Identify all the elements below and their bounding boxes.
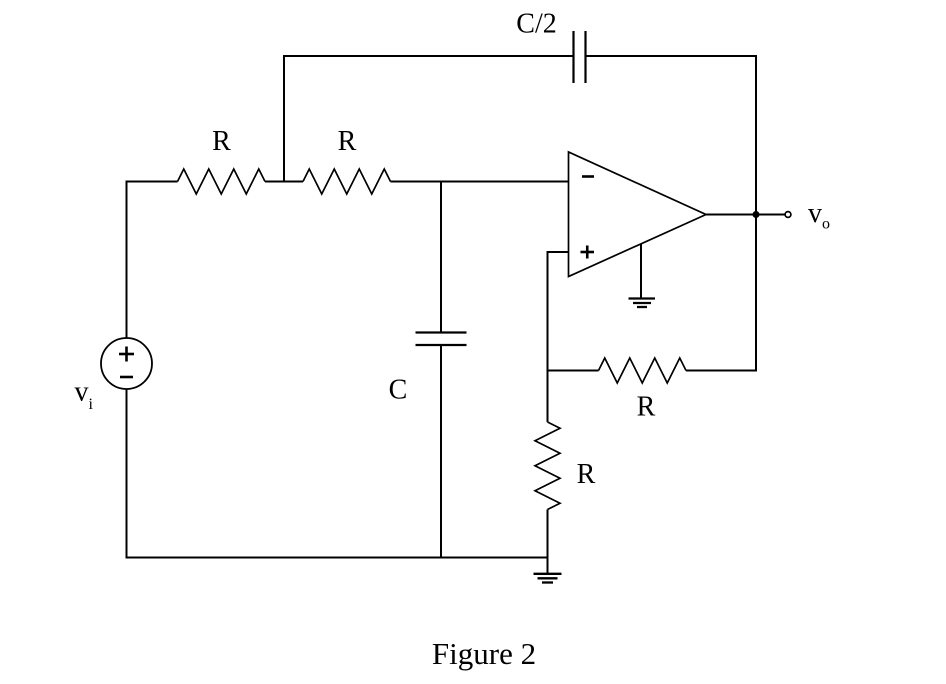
wire: input lead from source up and right to R1 <box>127 182 178 339</box>
wire: R4 down to bottom rail ground node <box>547 510 549 558</box>
svg-text:R: R <box>637 392 656 423</box>
wire: R3 to output vertical <box>686 370 757 372</box>
resistor R2 <box>303 169 391 194</box>
svg-text:R: R <box>212 126 231 157</box>
voltage source vi <box>101 338 152 389</box>
wire: node B down to capacitor C <box>440 182 442 333</box>
svg-text:R: R <box>577 459 596 490</box>
capacitor C/2 <box>574 31 586 83</box>
ground: main circuit ground <box>534 558 562 583</box>
terminal: vo open circle <box>785 212 791 218</box>
wire: feedback node to R3 <box>548 370 599 372</box>
op-amp U1 <box>569 152 707 277</box>
wire: op-amp output <box>706 214 785 216</box>
wire: right vertical from feedback top to feedback resistor <box>755 55 757 372</box>
resistor R4 <box>535 422 560 510</box>
svg-text:Figure 2: Figure 2 <box>432 636 536 671</box>
capacitor C <box>416 333 467 346</box>
ground: op-amp reference ground <box>629 244 656 307</box>
wire: from R2 through node B to op-amp inverting input <box>391 181 569 183</box>
resistor R1 <box>178 169 266 194</box>
wire: feedback top right segment <box>586 55 758 57</box>
wire: feedback node down to R4 <box>547 371 549 423</box>
node: output junction dot <box>753 211 760 218</box>
op-amp inverting input marker <box>582 175 594 178</box>
wire: non-inverting input left and down to feedback node <box>548 252 569 372</box>
svg-text:C: C <box>389 375 408 406</box>
svg-text:R: R <box>338 126 357 157</box>
wire: source bottom down and along bottom to ground node <box>127 389 548 558</box>
wire: between R1 and R2 through node A <box>265 181 303 183</box>
wire: node A vertical up to feedback branch <box>283 55 285 182</box>
wire: capacitor C bottom to bottom rail <box>440 345 442 558</box>
wire: feedback top left segment <box>283 55 573 57</box>
op-amp non-inverting input marker <box>581 246 595 259</box>
svg-text:C/2: C/2 <box>516 9 556 40</box>
resistor R3 <box>599 358 687 383</box>
